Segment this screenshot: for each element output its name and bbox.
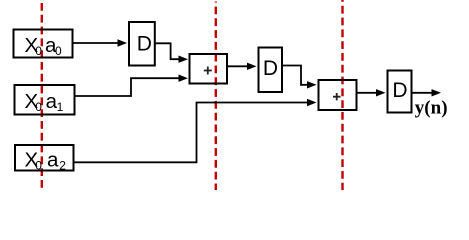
wire W8 output from delay D3 <box>413 92 433 94</box>
wire W7 from adder A2 to delay D3 <box>358 92 378 94</box>
wire W5 from delay D2 to adder A2 <box>283 66 308 85</box>
adder A2 <box>319 80 357 110</box>
arrowhead W4 into D2 <box>247 63 257 70</box>
arrowhead W7 into D3 <box>376 89 386 96</box>
svg-text:D: D <box>263 57 278 80</box>
delay D2 <box>259 48 283 93</box>
arrowhead W8 output <box>432 89 442 96</box>
dashed cut line 1 <box>41 3 43 190</box>
block X0a1 <box>15 85 75 115</box>
wire W2 from delay D1 to adder A1 <box>156 43 180 59</box>
delay D1 <box>129 22 155 66</box>
arrowhead W1 into D1 <box>118 39 128 46</box>
plus sign A1 <box>204 67 212 75</box>
wire W3 from block X0a1 to adder A1 <box>76 78 180 96</box>
arrowhead W3 into A1 <box>179 75 189 82</box>
wire W4 from adder A1 to delay D2 <box>228 65 248 67</box>
svg-text:X0a1: X0a1 <box>25 90 64 114</box>
plus sign A2 <box>333 93 341 100</box>
block X0a2 <box>15 145 74 171</box>
dashed cut line 2 <box>215 2 217 191</box>
block X0a0 <box>14 30 73 58</box>
arrowhead W5 into A2 <box>307 81 317 88</box>
svg-text:X0a2: X0a2 <box>25 149 67 173</box>
adder A1 <box>190 54 228 84</box>
svg-text:X0a0: X0a0 <box>25 34 63 58</box>
svg-text:D: D <box>392 79 407 102</box>
svg-text:D: D <box>137 32 152 55</box>
svg-text:y(n): y(n) <box>415 98 448 119</box>
arrowhead W2 into A1 <box>179 56 189 63</box>
delay D3 <box>388 71 412 113</box>
dashed cut line 3 <box>341 0 343 190</box>
arrowhead W6 into A2 <box>307 99 317 106</box>
wire W1 from block X0a0 to delay D1 <box>74 42 119 44</box>
wire W6 from block X0a2 to adder A2 <box>73 103 308 163</box>
